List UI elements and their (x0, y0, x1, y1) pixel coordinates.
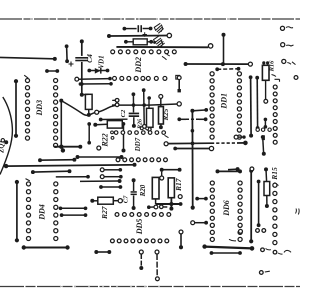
resistor R22 (93, 121, 125, 129)
IC DD5 pad row bottom (111, 239, 169, 243)
wire R17 bottom bus (156, 198, 183, 211)
wire y222.7 (191, 221, 208, 225)
svg-text:R20: R20 (139, 184, 147, 197)
IC DD6 pad column right (238, 181, 242, 242)
crystal ZQ1 value label (0, 140, 5, 154)
node dot x62.9 (61, 148, 65, 152)
resistor R28 (124, 39, 156, 45)
wire y181 (80, 179, 122, 183)
svg-text:DD7: DD7 (134, 137, 142, 152)
capacitor C16 body (262, 61, 269, 103)
DD2 tick marks (162, 54, 170, 59)
wire y157 (76, 155, 124, 159)
wire y171.6 (31, 169, 72, 174)
wire y253 (210, 251, 242, 255)
wire y119.5 (99, 118, 128, 122)
wire S-curve trace (61, 101, 181, 116)
wire y36 (107, 33, 172, 38)
node circle y137 (234, 135, 246, 139)
wire y247.5 (22, 245, 70, 249)
IC DD2 pad row bottom (113, 75, 180, 80)
wire y119.3 into DD1 (177, 117, 207, 121)
svg-text:DD3: DD3 (35, 100, 44, 117)
wire C4 vertical trace (80, 39, 84, 96)
node pad row y133 (114, 127, 168, 138)
wire y146.7 (54, 145, 82, 149)
wire y247 thick (202, 244, 254, 250)
wire vertical x258.6 (257, 180, 261, 228)
R22 ref label (101, 133, 110, 147)
R27 ref label (100, 206, 109, 220)
wire short vertical x89.2 (87, 122, 91, 144)
node filled pad left (262, 135, 265, 140)
VD1 ref label (98, 55, 106, 68)
node pads y231 (239, 229, 266, 234)
resistor R17 (168, 178, 174, 198)
capacitor C4 (75, 57, 88, 61)
resistor R15 (264, 167, 270, 208)
svg-text:R27: R27 (100, 206, 109, 220)
wire vertical x251 (249, 75, 253, 137)
resistor R24 (84, 94, 93, 117)
svg-text:R16: R16 (269, 60, 276, 73)
squiggle label bottom right (284, 250, 291, 252)
R15 ref label (270, 167, 279, 185)
wire y160 (38, 158, 76, 162)
C16 value label (269, 60, 276, 77)
wire y187 (99, 185, 122, 189)
wire y208.3 (59, 206, 88, 210)
wire y252 (94, 250, 111, 254)
wire vertical x16 (14, 79, 18, 138)
wire y80 (75, 77, 112, 81)
svg-text:DD2: DD2 (134, 57, 143, 74)
IC DD4 pad column left (26, 179, 31, 241)
wire board top edge (dashed) (0, 18, 300, 20)
R17 ref label (174, 178, 183, 192)
diode VD1 (87, 68, 109, 74)
wire bits y207 (147, 205, 167, 209)
tick tilde y240 (229, 239, 236, 241)
wire vertical x123.5 lower (123, 150, 125, 152)
svg-text:R22: R22 (101, 133, 110, 147)
wire stub x265.4 (264, 118, 268, 129)
wire DD6 top (216, 169, 243, 173)
wire vertical x141.3 (139, 250, 143, 270)
node crystal lead dot (1, 139, 8, 145)
wire short vertical stub (65, 44, 69, 63)
capacitor C5 with wire (123, 25, 153, 37)
resistor R19 (152, 177, 159, 199)
svg-text:DD1: DD1 (219, 93, 228, 110)
wire vertical x223.5 (222, 33, 226, 64)
wire vertical x156.9 (155, 250, 159, 281)
IC DD5 ref label (135, 219, 144, 236)
svg-text:R25: R25 (162, 108, 170, 121)
IC DD5 pad row top (115, 213, 171, 217)
node pad y250 with tilde (261, 248, 271, 252)
R25 ref label (162, 108, 170, 121)
resistor R26 (147, 96, 154, 131)
wire main y47.5 (116, 44, 212, 48)
svg-text:R17: R17 (174, 178, 183, 192)
capacitor C10 (131, 178, 137, 210)
node pad pin a (280, 26, 293, 30)
svg-text:DD5: DD5 (135, 219, 144, 236)
node circle x98.8 (97, 146, 101, 150)
crystal ZQ1 outline (arc) (0, 97, 12, 175)
node pad row y160 (116, 158, 167, 162)
IC DD4 ref label (38, 204, 47, 221)
wire stub x263 (261, 135, 266, 156)
wire stub x179.2 (177, 76, 181, 93)
wire y215.1 (60, 213, 88, 217)
C5 value label (hand squiggle) (154, 23, 163, 33)
svg-text:R15: R15 (270, 167, 279, 181)
node pad right edge (294, 76, 298, 80)
wire y177 left (56, 175, 90, 179)
IC DD1 ref label (219, 93, 228, 110)
node circle x180.2 (178, 195, 182, 199)
wire vertical x144 (142, 88, 147, 128)
node pad y272 with dash (259, 271, 269, 275)
IC DD2 ref label (134, 57, 143, 74)
svg-text:C2: C2 (120, 109, 127, 117)
IC DD1 pad column left (210, 72, 214, 139)
node pad pin c (282, 59, 296, 64)
IC DD6 ref label (222, 200, 231, 217)
C4 value label (85, 54, 94, 63)
C4 polarity + (69, 62, 74, 67)
svg-text:C4: C4 (85, 54, 94, 63)
wire y166 long (4, 163, 137, 169)
wire y169.7 (160, 168, 182, 176)
wire long vertical x192.5 (191, 111, 195, 210)
wire top-left horizontal (0, 57, 57, 61)
wire y69 dashed (215, 67, 240, 71)
R26 value label (138, 119, 144, 130)
IC DD1 pad column right (237, 72, 241, 139)
C10 value label (123, 195, 130, 203)
IC DD6 pad column left (210, 181, 214, 242)
svg-text:DD6: DD6 (222, 200, 231, 217)
wire y176.7 right (100, 175, 122, 179)
IC DD3 pad column left (24, 75, 29, 140)
node pad y252 with tick (273, 250, 282, 254)
wire board bottom edge (dashed) (0, 286, 300, 288)
node circle between (160, 176, 164, 180)
R20 value label (139, 184, 147, 197)
resistor R27 (90, 197, 122, 204)
IC DD3 pad column right (54, 78, 58, 147)
capacitor C2 (129, 92, 139, 128)
IC DD3 ref label (35, 100, 44, 117)
wire y198.6 (195, 197, 208, 201)
wire vertical x251.2 (249, 169, 253, 244)
right edge tiny label (296, 209, 300, 215)
resistor R25 (159, 94, 164, 129)
wire vertical x61.3 (59, 99, 63, 147)
node marks x112 (111, 131, 114, 139)
svg-text:C7: C7 (123, 195, 130, 203)
wire y143 long (164, 141, 248, 146)
wire y110 into DD1 (190, 108, 208, 113)
svg-text:DD4: DD4 (38, 204, 47, 221)
svg-text:VD1: VD1 (98, 55, 106, 68)
wire y169 (228, 167, 254, 171)
connector pad column upper right (273, 79, 279, 144)
IC DD2 pad row top (111, 50, 177, 54)
node pad pin b (281, 43, 294, 47)
wire y84 (79, 82, 113, 86)
wire vertical x257.6 (255, 76, 259, 130)
wire y64 (184, 62, 253, 66)
wire vertical x16.9 (15, 180, 19, 243)
IC DD4 pad column right (54, 182, 58, 241)
wire y148.5 (173, 146, 213, 150)
wire y169.8 (100, 168, 122, 172)
wire vertical x181 (179, 230, 183, 249)
C2 value label (120, 109, 127, 117)
IC DD7 ref label (134, 137, 142, 152)
node pads x117 (112, 98, 119, 106)
connector pad column lower right (273, 183, 277, 245)
node pad row y129.7 (256, 128, 271, 131)
wire vertical x123.5 (122, 126, 126, 153)
R28 value label (hand squiggle) (154, 35, 165, 47)
wire small left (45, 69, 59, 73)
